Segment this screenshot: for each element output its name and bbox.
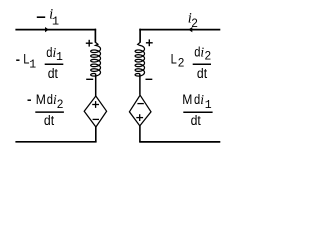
minus polarity mark of L1 bbox=[86, 78, 93, 80]
svg-text:dt: dt bbox=[197, 66, 207, 81]
dependent source V1 diamond (Mdi2/dt) bbox=[84, 96, 106, 127]
svg-text:1: 1 bbox=[52, 15, 59, 29]
minus polarity mark of L2 bbox=[146, 78, 153, 80]
svg-text:M: M bbox=[182, 92, 192, 107]
inductor L2 coil bbox=[135, 29, 144, 76]
svg-text:d: d bbox=[47, 92, 53, 107]
wire V2 bottom stub bbox=[139, 126, 141, 142]
arrow current direction i2 (pointing left) bbox=[188, 27, 192, 32]
svg-text:L: L bbox=[171, 52, 178, 67]
wire bottom-right horizontal bbox=[139, 141, 220, 143]
wire L2 bottom to dependent source V2 bbox=[139, 74, 141, 95]
inductor L1 coil bbox=[91, 29, 101, 76]
svg-text:2: 2 bbox=[205, 50, 211, 62]
fraction bar of di1/dt bbox=[45, 63, 64, 65]
svg-text:i: i bbox=[200, 92, 204, 107]
wire bottom-left horizontal bbox=[15, 141, 96, 143]
plus inside V2 bbox=[136, 117, 143, 119]
svg-text:d: d bbox=[194, 92, 200, 107]
fraction bar of Mdi1/dt bbox=[183, 111, 212, 113]
svg-text:1: 1 bbox=[56, 51, 63, 64]
svg-text:2: 2 bbox=[57, 99, 63, 111]
plus polarity mark of L1 bbox=[86, 42, 93, 44]
arrow current direction i1 (pointing right) bbox=[45, 27, 49, 32]
svg-text:1: 1 bbox=[29, 58, 36, 71]
label minus sign of -i1 bbox=[37, 16, 45, 18]
dependent source V2 diamond (Mdi1/dt) bbox=[129, 95, 151, 126]
wire top-right horizontal bbox=[139, 29, 220, 31]
svg-text:M: M bbox=[36, 92, 46, 107]
fraction bar of Mdi2/dt bbox=[35, 111, 64, 113]
label -L1 di1/dt : hyphen bbox=[16, 59, 19, 61]
wire L1 bottom to dependent source V1 bbox=[95, 74, 97, 97]
wire right vertical drop into L2 bbox=[139, 29, 141, 43]
wire left vertical drop into L1 bbox=[94, 29, 96, 43]
svg-text:2: 2 bbox=[178, 58, 184, 70]
plus inside V1 bbox=[92, 104, 99, 106]
wire V1 bottom stub bbox=[95, 127, 97, 142]
wire top-left horizontal bbox=[15, 29, 96, 31]
minus inside V2 bbox=[137, 103, 143, 105]
svg-text:dt: dt bbox=[191, 113, 201, 128]
svg-text:dt: dt bbox=[44, 113, 54, 128]
plus polarity mark of L2 bbox=[146, 42, 153, 44]
svg-text:2: 2 bbox=[191, 18, 197, 30]
svg-text:1: 1 bbox=[205, 99, 212, 112]
fraction bar of di2/dt bbox=[193, 63, 211, 65]
label -Mdi2/dt : hyphen bbox=[28, 99, 32, 101]
minus inside V1 bbox=[93, 118, 99, 120]
svg-text:dt: dt bbox=[48, 66, 58, 81]
